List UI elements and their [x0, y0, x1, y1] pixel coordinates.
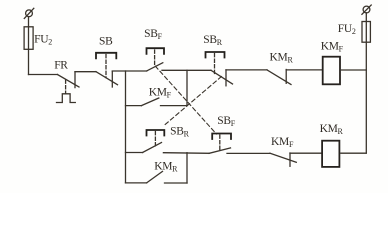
- pushbutton SBF NO contact: [147, 63, 163, 71]
- SBR lower actuator dashed: [154, 132, 156, 147]
- fuse FU2 right: [362, 22, 370, 43]
- svg-text:KMR: KMR: [154, 161, 178, 174]
- wire SBR to KMR contact: [226, 69, 267, 71]
- svg-text:FR: FR: [54, 60, 68, 72]
- svg-text:SBR: SBR: [170, 125, 189, 138]
- contactor KMF NC interlock contact: [270, 153, 296, 166]
- coil KMF: [323, 57, 340, 85]
- svg-text:FU2: FU2: [34, 34, 52, 47]
- pushbutton SBF lower cap: [212, 134, 231, 140]
- pushbutton SBR NC contact: [211, 70, 233, 86]
- interlock dashed SBR top to SBR lower: [164, 77, 222, 126]
- pushbutton SB NC contact: [96, 71, 118, 87]
- svg-text:SBR: SBR: [203, 34, 222, 47]
- wire KMR contact to KMF coil: [286, 69, 322, 71]
- coil KMR: [322, 141, 339, 167]
- contactor KMR NO latch contact: [147, 171, 163, 183]
- wire KMF NC to KMR coil: [290, 152, 322, 154]
- wire FR to SB: [75, 71, 96, 73]
- wire SBF to SBR: [162, 69, 211, 71]
- pushbutton SBF lower NO contact: [209, 148, 230, 153]
- svg-text:KMF: KMF: [149, 87, 172, 100]
- FR actuator dashed: [65, 80, 67, 94]
- row2 wire from node A to KMF latch: [126, 105, 142, 107]
- node A vertical left branch: [125, 71, 127, 183]
- SB actuator dashed: [105, 55, 107, 78]
- interlock dashed SBF top to SBF lower: [155, 66, 216, 134]
- svg-text:SBF: SBF: [217, 115, 235, 128]
- svg-text:KMR: KMR: [320, 123, 344, 136]
- row4 wire node A to KMR latch: [126, 182, 147, 184]
- pushbutton SBR cap: [206, 52, 225, 58]
- wire right rail: [365, 13, 367, 153]
- wire SB to SBF: [112, 70, 146, 72]
- wire KMR coil to right rail: [341, 152, 367, 154]
- pushbutton SB cap: [96, 53, 116, 59]
- wire KMF coil to right rail: [342, 69, 367, 71]
- svg-text:KMF: KMF: [321, 41, 344, 54]
- svg-text:SB: SB: [99, 36, 113, 48]
- fuse FU2 left: [24, 27, 33, 50]
- wire SBF lower to KMF NC: [227, 152, 270, 154]
- svg-text:FU2: FU2: [338, 23, 356, 36]
- SBF lower actuator dashed: [219, 135, 221, 150]
- svg-text:SBF: SBF: [144, 28, 162, 41]
- wire bus to FR: [29, 74, 58, 76]
- terminal left: [24, 8, 34, 18]
- wire KMF latch to node B: [161, 105, 188, 107]
- SBF actuator dashed: [154, 50, 156, 65]
- wire left rail top: [28, 17, 30, 75]
- FR heater element: [57, 94, 76, 103]
- pushbutton SBR lower NO contact: [143, 143, 162, 153]
- node C vertical row3 to row4: [186, 153, 188, 183]
- svg-text:KMR: KMR: [270, 51, 294, 64]
- terminal right: [362, 5, 371, 14]
- thermal relay FR contact: [57, 72, 79, 88]
- pushbutton SBR lower cap: [147, 130, 165, 136]
- contactor KMR NC interlock contact: [267, 70, 291, 85]
- contactor KMF NO latch contact: [141, 98, 158, 106]
- wire KMR latch to node C: [165, 182, 188, 184]
- row3 wire node A to SBR lower: [126, 152, 143, 154]
- pushbutton SBF cap: [147, 48, 165, 54]
- svg-text:KMF: KMF: [271, 136, 294, 149]
- SBR actuator dashed: [214, 54, 216, 76]
- node B vertical to KMF latch: [186, 70, 188, 105]
- wire SBR lower to SBF lower: [163, 152, 209, 155]
